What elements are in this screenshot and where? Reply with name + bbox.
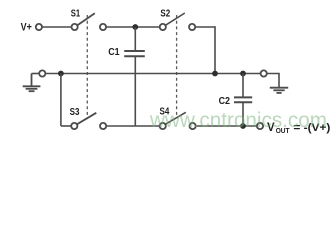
terminal right ground bbox=[261, 70, 267, 76]
terminal left ground bbox=[39, 70, 45, 76]
node junction C2 bottom bbox=[240, 123, 246, 129]
switch S1 bbox=[72, 13, 107, 30]
wire S1 to S2 bbox=[106, 26, 160, 28]
wire bottom rail S3 to S4 bbox=[106, 125, 159, 127]
wire right terminal to ground bbox=[267, 74, 279, 88]
node junction C1 top bbox=[132, 24, 138, 30]
wire C2 bottom lead bbox=[242, 102, 244, 126]
dashed gang line S1-S3 bbox=[86, 15, 88, 119]
ground symbol left bbox=[23, 74, 41, 92]
switch S4 bbox=[160, 112, 196, 129]
ground symbol right bbox=[270, 88, 288, 93]
wire branch down to bottom rail bbox=[60, 74, 62, 127]
wire bottom rail S3 left bbox=[61, 125, 71, 127]
wire left ground to terminal bbox=[32, 73, 40, 75]
wire C1 top lead bbox=[134, 27, 136, 51]
wire C2 top lead bbox=[242, 74, 244, 98]
node junction ground rail to S3 branch bbox=[58, 71, 64, 77]
svg-text:S1: S1 bbox=[71, 8, 81, 20]
wire V+ to S1 bbox=[42, 26, 71, 28]
wire S2 right to corner bbox=[195, 26, 215, 28]
svg-text:C2: C2 bbox=[219, 95, 231, 107]
svg-text:www.cntronics.com: www.cntronics.com bbox=[149, 109, 327, 132]
switch S2 bbox=[160, 13, 196, 30]
terminal V+ input bbox=[36, 24, 42, 30]
ground rail wire bbox=[46, 73, 261, 75]
node junction S2 branch on ground rail bbox=[212, 71, 218, 77]
dashed gang line S2-S4 bbox=[176, 15, 178, 118]
svg-text:S3: S3 bbox=[70, 106, 80, 118]
switch S3 bbox=[71, 113, 106, 129]
node junction C2 top on ground rail bbox=[240, 71, 246, 77]
capacitor C2 bbox=[234, 97, 252, 102]
svg-text:V+: V+ bbox=[21, 22, 32, 34]
svg-text:C1: C1 bbox=[108, 46, 120, 58]
wire corner down to ground rail bbox=[214, 26, 216, 73]
terminal VOUT bbox=[257, 123, 263, 129]
wire C1 bottom lead crossing ground rail bbox=[134, 56, 136, 126]
label VOUT = -(V+) bbox=[267, 122, 331, 135]
wire bottom rail S4 to output bbox=[196, 125, 257, 127]
svg-text:S2: S2 bbox=[160, 7, 170, 19]
capacitor C1 bbox=[124, 51, 145, 56]
